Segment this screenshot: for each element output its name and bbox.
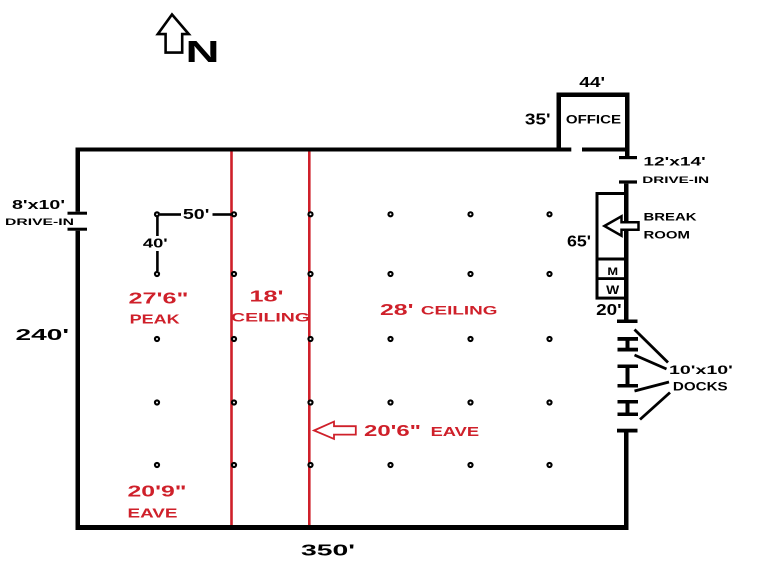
dimension line 40ft (156, 217, 159, 271)
svg-text:65': 65' (567, 234, 591, 251)
svg-text:18': 18' (250, 289, 284, 306)
dock leader line 1 (635, 330, 669, 363)
svg-text:12'x14': 12'x14' (643, 154, 706, 168)
svg-text:DRIVE-IN: DRIVE-IN (5, 217, 74, 228)
dock pier 2 (618, 365, 639, 388)
svg-text:28': 28' (380, 302, 414, 319)
svg-text:PEAK: PEAK (130, 313, 180, 327)
break room left wall (596, 192, 599, 300)
svg-text:50': 50' (183, 207, 210, 223)
column grid dot centers (white) (156, 213, 551, 466)
dock leader line 4 (640, 393, 670, 420)
wall left upper segment (76, 148, 81, 212)
column grid dots (154, 211, 553, 468)
red column line 2 (308, 149, 311, 526)
svg-text:8'x10': 8'x10' (12, 198, 65, 212)
dock wall end tick (617, 320, 638, 324)
svg-text:EAVE: EAVE (431, 425, 480, 439)
svg-text:20'9": 20'9" (128, 484, 187, 501)
restroom W top wall (596, 277, 627, 280)
dimension line 50ft (160, 213, 231, 216)
office left wall (557, 93, 562, 148)
svg-text:EAVE: EAVE (128, 507, 178, 521)
break room top wall (596, 192, 627, 195)
svg-text:CEILING: CEILING (421, 303, 498, 317)
drive-in 8x10 bottom tick (68, 228, 88, 231)
office top wall (557, 93, 630, 98)
wall top-right segment (right of office door) (582, 148, 630, 152)
wall right mid segment (624, 184, 629, 320)
red column line 1 (230, 149, 233, 526)
drive-in 8x10 top tick (68, 212, 88, 215)
dock leader line 3 (635, 382, 670, 391)
dock pier 3 (618, 400, 639, 416)
svg-text:27'6": 27'6" (129, 291, 189, 308)
office right wall / right wall upper (625, 93, 630, 157)
svg-text:240': 240' (16, 327, 70, 344)
eave arrow (red) (314, 422, 356, 439)
svg-text:OFFICE: OFFICE (566, 113, 621, 127)
svg-text:W: W (606, 283, 620, 297)
svg-text:20': 20' (596, 302, 622, 319)
wall left lower segment (76, 231, 81, 530)
wall bottom (76, 525, 629, 530)
svg-text:CEILING: CEILING (231, 311, 310, 325)
svg-text:ROOM: ROOM (644, 230, 691, 242)
dock leader line 2 (635, 355, 667, 369)
svg-text:350': 350' (301, 543, 355, 560)
north arrow (158, 15, 189, 53)
wall top-left segment (76, 148, 572, 152)
svg-text:40': 40' (143, 237, 168, 251)
svg-text:35': 35' (525, 112, 551, 129)
drive-in 12x14 bottom tick (619, 180, 637, 183)
svg-text:BREAK: BREAK (644, 212, 697, 224)
svg-text:DRIVE-IN: DRIVE-IN (642, 175, 709, 186)
restroom W bottom wall (596, 297, 627, 300)
svg-text:N: N (186, 34, 220, 69)
svg-text:M: M (607, 266, 618, 278)
restroom M top wall (596, 258, 627, 261)
drive-in 12x14 top tick (619, 156, 637, 159)
dock pier 1 (618, 337, 639, 352)
svg-text:20'6": 20'6" (364, 423, 421, 440)
svg-text:44': 44' (579, 74, 605, 91)
dock wall resume tick (617, 429, 638, 433)
svg-text:10'x10': 10'x10' (669, 363, 733, 377)
break room arrow (604, 216, 638, 235)
wall right lower segment (624, 432, 629, 525)
svg-text:DOCKS: DOCKS (673, 380, 728, 394)
